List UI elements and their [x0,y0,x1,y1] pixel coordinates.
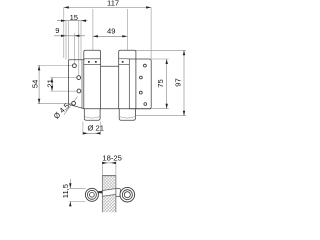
svg-text:Ø 21: Ø 21 [87,123,103,132]
svg-text:18-25: 18-25 [102,154,121,163]
svg-text:11,5: 11,5 [61,184,70,198]
svg-text:21: 21 [46,79,55,87]
svg-text:75: 75 [156,79,165,87]
svg-text:54: 54 [31,80,40,88]
svg-text:49: 49 [107,27,115,36]
svg-text:9: 9 [55,26,59,35]
svg-text:97: 97 [174,78,183,86]
svg-text:117: 117 [107,0,119,8]
svg-text:15: 15 [70,13,78,22]
